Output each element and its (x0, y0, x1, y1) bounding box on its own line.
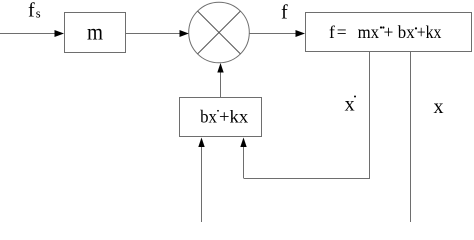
svg-text:f: f (329, 22, 335, 42)
svg-text:m: m (87, 20, 103, 45)
svg-text:mx: mx (358, 22, 380, 42)
svg-text:bx: bx (398, 22, 415, 42)
svg-text:f: f (28, 0, 35, 22)
svg-text:=: = (337, 22, 347, 42)
svg-text:+kx: +kx (219, 107, 248, 127)
svg-text:x: x (434, 96, 444, 118)
svg-text:x: x (345, 94, 355, 116)
svg-text:+kx: +kx (417, 22, 442, 42)
svg-text:f: f (281, 2, 288, 24)
svg-text:s: s (36, 7, 41, 21)
svg-text:+: + (384, 22, 394, 42)
svg-text:bx: bx (200, 107, 217, 127)
